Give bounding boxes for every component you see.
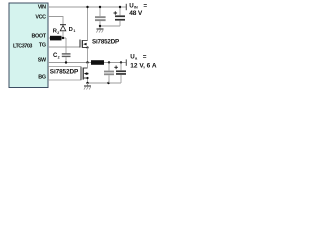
svg-text:D: D [69, 27, 73, 33]
node dot C2-SW [65, 61, 67, 63]
svg-text:VIN: VIN [38, 5, 46, 11]
capacitor C5 (output film) [104, 71, 114, 73]
wire BOOT [48, 38, 66, 54]
svg-text:Si7852DP: Si7852DP [92, 39, 119, 46]
capacitor C2 (boost) [62, 53, 71, 54]
inductor L1 [91, 60, 104, 65]
svg-text:VCC: VCC [35, 15, 46, 21]
wire Q2 source [87, 78, 89, 83]
wire C2 to SW node [65, 57, 67, 62]
wire input ground node [100, 25, 120, 27]
wire Q1 source to SW [87, 48, 89, 63]
plus sign input [114, 11, 118, 15]
plus sign output [114, 66, 118, 70]
svg-text:1: 1 [73, 29, 75, 33]
transistor Q1 Si7852DP [79, 40, 81, 48]
IC block U1 LTC3703 [9, 3, 48, 88]
node dot outcapA-groundline [107, 82, 109, 84]
wire Q1 drain [87, 7, 89, 41]
diode D1 [60, 24, 66, 26]
svg-text:LTC3703: LTC3703 [13, 43, 32, 49]
svg-text:48 V: 48 V [129, 10, 143, 17]
resistor R2 [50, 36, 62, 41]
ground input [99, 26, 101, 29]
transistor Q2 Si7852DP [80, 67, 82, 80]
wire SW rail [48, 62, 126, 64]
svg-text:=: = [143, 2, 147, 9]
capacitor C6 (output electrolytic) [116, 70, 126, 72]
svg-text:2: 2 [57, 31, 59, 35]
wire input cap C4 branch [119, 7, 121, 26]
ground output [87, 83, 89, 86]
wire TG [48, 46, 80, 48]
capacitor C4 (input electrolytic) [115, 15, 125, 17]
svg-text:12 V, 6 A: 12 V, 6 A [130, 62, 157, 69]
node dot Q1source-SW [86, 61, 88, 63]
svg-text:TG: TG [39, 43, 46, 49]
capacitor C1 (input film) [95, 16, 106, 18]
svg-text:BG: BG [38, 75, 46, 81]
node dot L1-outcapA [108, 61, 110, 63]
terminal output [125, 59, 127, 65]
node dot outcapB [120, 61, 122, 63]
node dot Q2source-groundline [86, 82, 88, 84]
wire VIN rail [48, 6, 126, 8]
wire D1 anode to BOOT node [62, 31, 64, 38]
svg-text:=: = [143, 53, 147, 60]
svg-text:BOOT: BOOT [32, 34, 47, 40]
node dot rail-C4 [119, 6, 121, 8]
wire output cap A branch [108, 63, 110, 84]
node dot BOOT-D1 [62, 37, 64, 39]
wire VCC [48, 17, 63, 25]
wire Q2 drain [87, 63, 89, 69]
terminal input [125, 4, 127, 10]
node dot rail-Q1 [86, 6, 88, 8]
svg-text:SW: SW [38, 58, 47, 64]
node dot Q2 source [86, 77, 88, 79]
wire output cap B branch [120, 63, 122, 84]
svg-text:2: 2 [58, 55, 60, 59]
node dot rail-C1 [99, 6, 101, 8]
label box Si7852DP (Q2) [49, 67, 82, 81]
svg-text:Si7852DP: Si7852DP [50, 69, 79, 76]
wire output ground line [88, 82, 122, 84]
wire input cap C1 branch [99, 7, 101, 26]
svg-text:a: a [135, 57, 138, 61]
node dot C1 ground [99, 25, 101, 27]
svg-text:IN: IN [134, 6, 138, 10]
